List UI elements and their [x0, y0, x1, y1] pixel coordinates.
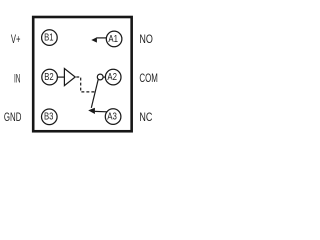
svg-text:B1: B1: [44, 32, 54, 44]
svg-text:A2: A2: [107, 71, 117, 83]
svg-text:A1: A1: [108, 33, 118, 45]
svg-text:NO: NO: [139, 32, 153, 46]
svg-text:GND: GND: [4, 110, 22, 124]
svg-text:IN: IN: [14, 72, 21, 86]
svg-text:B2: B2: [44, 71, 54, 83]
svg-text:A3: A3: [107, 111, 117, 123]
svg-text:B3: B3: [44, 111, 54, 123]
svg-text:NC: NC: [139, 110, 152, 124]
svg-text:V+: V+: [11, 32, 21, 46]
svg-text:COM: COM: [139, 71, 158, 85]
